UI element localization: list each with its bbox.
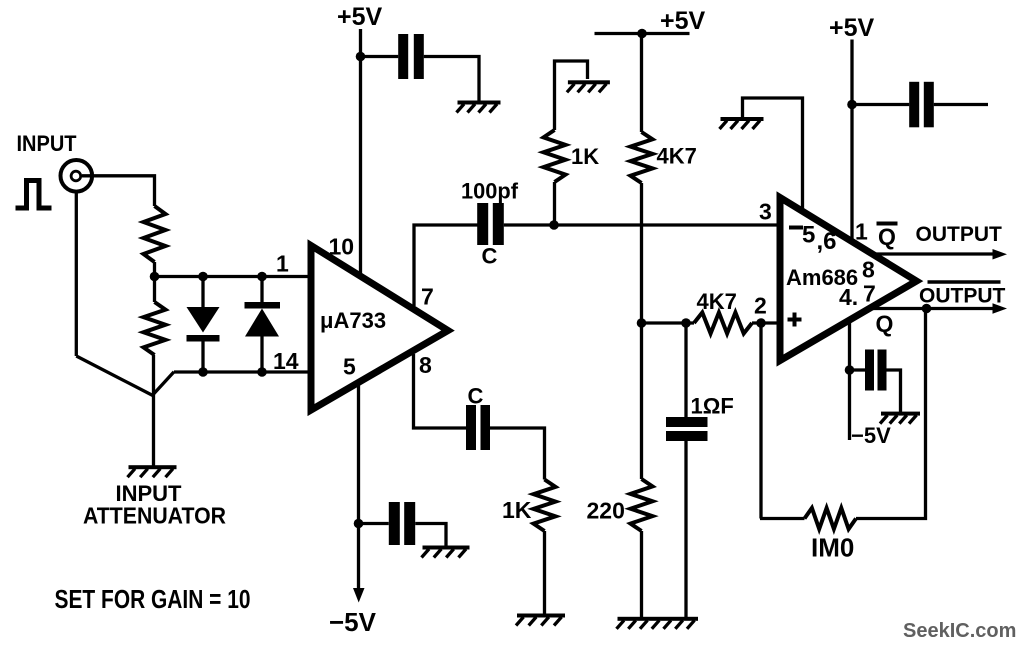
svg-text:5: 5 bbox=[343, 354, 356, 380]
svg-text:Q: Q bbox=[878, 224, 896, 250]
label Q bbox=[876, 311, 894, 337]
label -5V (left) bbox=[329, 607, 377, 637]
ground (input attenuator) bbox=[128, 465, 177, 477]
svg-text:4K7: 4K7 bbox=[697, 289, 737, 314]
label 1K (top) bbox=[571, 144, 599, 169]
svg-text:1K: 1K bbox=[571, 144, 599, 169]
svg-text:10: 10 bbox=[329, 234, 355, 260]
pin label 8 (U2) bbox=[862, 257, 875, 283]
svg-text:SET FOR GAIN = 10: SET FOR GAIN = 10 bbox=[55, 586, 251, 614]
wire bottom node bbox=[174, 370, 311, 373]
resistor R4 4K7 (vertical) bbox=[631, 34, 653, 324]
resistor R3 1K bbox=[544, 61, 588, 225]
capacitor C3 (pin 8) bbox=[466, 405, 490, 450]
wire pin5 to C5 bbox=[359, 522, 389, 525]
pin label 14 bbox=[273, 348, 299, 374]
svg-text:4K7: 4K7 bbox=[657, 144, 697, 169]
label C (C3) bbox=[468, 384, 484, 409]
label Q-bar bbox=[877, 224, 898, 250]
wire feedback bottom left bbox=[760, 517, 805, 520]
ground (R7) bbox=[516, 614, 565, 626]
arrow -5V bbox=[353, 588, 365, 603]
label INPUT bbox=[17, 131, 78, 156]
capacitor C6 (+5V bypass right) bbox=[909, 82, 934, 128]
label 1M0 bbox=[811, 533, 854, 563]
connector J1 (input BNC) bbox=[61, 160, 93, 192]
wire node C to R6 bbox=[642, 321, 695, 324]
svg-text:OUTPUT: OUTPUT bbox=[916, 223, 1003, 246]
svg-text:C: C bbox=[482, 244, 498, 269]
resistor R5 220 bbox=[631, 323, 653, 619]
label 100pf bbox=[461, 179, 519, 204]
comparator U2 Am686 bbox=[780, 198, 917, 361]
svg-text:8: 8 bbox=[862, 257, 875, 283]
wire node B to Am686 pin 3 bbox=[554, 223, 780, 226]
wire wiper diagonal right bbox=[152, 372, 174, 396]
svg-text:,6: ,6 bbox=[817, 228, 837, 255]
wire connector stem bbox=[75, 191, 78, 356]
pin label 1 bbox=[276, 251, 289, 277]
svg-text:μA733: μA733 bbox=[320, 308, 386, 333]
svg-text:ATTENUATOR: ATTENUATOR bbox=[83, 503, 226, 529]
wire node A to pin 1 bbox=[155, 275, 312, 278]
node bottom-D1 junction bbox=[198, 367, 208, 377]
wire pin 5 to -5V bbox=[357, 384, 360, 592]
label 220 bbox=[587, 498, 625, 524]
pin label 4. bbox=[839, 284, 858, 310]
svg-text:7: 7 bbox=[421, 284, 434, 310]
op-amp U1 uA733 bbox=[311, 246, 448, 411]
svg-text:1K: 1K bbox=[502, 497, 532, 523]
svg-text:14: 14 bbox=[273, 348, 299, 374]
wire pins 5,6 to ground bbox=[743, 98, 803, 212]
svg-text:100pf: 100pf bbox=[461, 179, 519, 204]
wire +5V right to U2 bbox=[850, 40, 853, 242]
wire C5 to ground bbox=[415, 524, 446, 547]
label 1K (bottom) bbox=[502, 497, 532, 523]
svg-text:−5V: −5V bbox=[329, 607, 377, 637]
svg-text:+5V: +5V bbox=[660, 7, 706, 35]
label -5V (right) bbox=[851, 423, 891, 448]
svg-text:Q: Q bbox=[876, 311, 894, 337]
label C (C1) bbox=[482, 244, 498, 269]
label +5V (middle) bbox=[660, 7, 706, 35]
node top-D1 junction bbox=[198, 272, 208, 282]
ground (C7) bbox=[880, 412, 920, 424]
svg-text:OUTPUT: OUTPUT bbox=[919, 285, 1006, 308]
node top-D2 junction bbox=[257, 272, 267, 282]
svg-text:3: 3 bbox=[759, 199, 772, 225]
wire +5V middle rail bbox=[595, 32, 690, 35]
wire pin 4 to -5V bbox=[848, 321, 851, 440]
wire Q-bar output bbox=[873, 252, 996, 255]
pin label 2 bbox=[754, 293, 767, 319]
label + (U2) bbox=[788, 313, 802, 327]
svg-text:SeekIC.com: SeekIC.com bbox=[903, 620, 1016, 642]
node pin5 bypass junction bbox=[354, 519, 364, 529]
svg-text:+5V: +5V bbox=[829, 14, 875, 42]
ground (C4) bbox=[457, 101, 501, 113]
svg-text:1ΩF: 1ΩF bbox=[691, 394, 734, 419]
wire wiper diagonal left bbox=[76, 356, 153, 396]
svg-text:−5V: −5V bbox=[851, 423, 891, 448]
label +5V (left) bbox=[337, 3, 383, 31]
diode D1 (cathode down) bbox=[187, 277, 220, 373]
node B junction bbox=[549, 220, 559, 230]
wire +5V to C4 bbox=[361, 55, 399, 58]
node A junction bbox=[150, 272, 160, 282]
ground (R5/C2 shared) bbox=[617, 617, 699, 629]
wire C1 to node B bbox=[504, 223, 554, 226]
capacitor C5 (-5V bypass) bbox=[389, 502, 415, 545]
wire Q output bbox=[871, 307, 995, 310]
label 4K7 (vertical) bbox=[657, 144, 697, 169]
wire R6 to pin 2 bbox=[752, 321, 780, 324]
svg-text:8: 8 bbox=[419, 352, 432, 378]
wire input to R1 bbox=[82, 176, 155, 206]
resistor R8 1M0 bbox=[805, 508, 857, 529]
pulse input waveform symbol bbox=[16, 181, 52, 209]
node +5V right junction bbox=[847, 100, 857, 110]
node pin 4 junction bbox=[845, 365, 855, 375]
wire C6 stub bbox=[934, 103, 988, 106]
wire pin 7 to C1 bbox=[414, 225, 478, 306]
node C junction (4K7/220) bbox=[637, 318, 647, 328]
node D junction (1uF tap) bbox=[681, 318, 691, 328]
capacitor C7 (pin 4 bypass) bbox=[850, 350, 901, 413]
wire C4 to ground bbox=[424, 57, 479, 102]
svg-text:C: C bbox=[468, 384, 484, 409]
capacitor C4 (+5V bypass left) bbox=[398, 34, 424, 79]
svg-text:7: 7 bbox=[863, 281, 876, 307]
svg-text:INPUT: INPUT bbox=[17, 131, 78, 156]
label OUTPUT (top) bbox=[916, 223, 1003, 246]
capacitor C2 1uF bbox=[666, 323, 708, 619]
svg-text:+5V: +5V bbox=[337, 3, 383, 31]
label 1uF bbox=[691, 394, 734, 419]
wire feedback bottom right bbox=[856, 309, 926, 519]
svg-text:1: 1 bbox=[276, 251, 289, 277]
diode D2 (cathode up) bbox=[245, 277, 281, 373]
ground (pins 5,6) bbox=[720, 117, 764, 129]
svg-text:IM0: IM0 bbox=[811, 533, 854, 563]
wire +5V to C6 bbox=[852, 103, 909, 106]
ground (R3) bbox=[567, 80, 610, 92]
arrow Q output bbox=[993, 303, 1008, 314]
label SET FOR GAIN = 10 bbox=[55, 586, 251, 614]
pin label 3 bbox=[759, 199, 772, 225]
wire pin 8 to C3 bbox=[414, 354, 467, 428]
resistor R7 1K (bottom) bbox=[490, 428, 556, 614]
svg-text:2: 2 bbox=[754, 293, 767, 319]
svg-text:5: 5 bbox=[802, 222, 815, 249]
node +5V middle junction bbox=[637, 29, 647, 39]
svg-text:4.: 4. bbox=[839, 284, 858, 310]
label INPUT ATTENUATOR bbox=[83, 481, 226, 529]
pin label 7 (U1) bbox=[421, 284, 434, 310]
resistor R6 4K7 (horizontal) bbox=[694, 313, 752, 334]
pin label 7 (U2) bbox=[863, 281, 876, 307]
pin label 5 (U1) bbox=[343, 354, 356, 380]
svg-text:220: 220 bbox=[587, 498, 625, 524]
node Q feedback junction bbox=[922, 304, 932, 314]
wire +5V to pin 10 bbox=[359, 29, 362, 276]
watermark SeekIC.com bbox=[903, 620, 1016, 642]
node +5V bypass junction bbox=[356, 52, 366, 62]
node pin 2 junction bbox=[756, 318, 766, 328]
resistor R1 (attenuator top) bbox=[144, 206, 166, 262]
label OUTPUT (bottom) bbox=[919, 282, 1006, 308]
ground (C5) bbox=[422, 546, 470, 558]
svg-text:1: 1 bbox=[855, 219, 868, 245]
capacitor C1 100pf bbox=[477, 203, 504, 245]
wire feedback down bbox=[759, 323, 762, 519]
arrow Q-bar output bbox=[993, 249, 1008, 260]
pin label 1 (U2) bbox=[855, 219, 868, 245]
pin label 10 bbox=[329, 234, 355, 260]
label +5V (right) bbox=[829, 14, 875, 42]
pin label 8 (U1) bbox=[419, 352, 432, 378]
wire R1 to node A bbox=[153, 262, 156, 277]
label 4K7 (horizontal) bbox=[697, 289, 737, 314]
resistor R2 (attenuator bottom) bbox=[144, 277, 166, 466]
label -5,6 (U2 pins) bbox=[789, 222, 837, 256]
node bottom-D2 junction bbox=[257, 367, 267, 377]
